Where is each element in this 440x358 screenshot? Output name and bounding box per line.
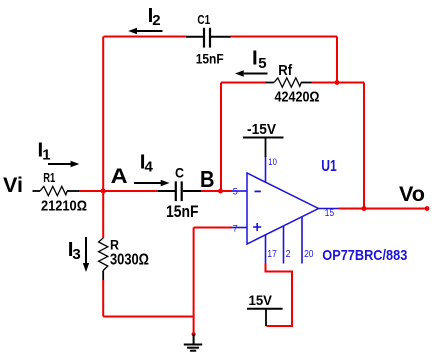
junction dot C1/Rf	[335, 80, 340, 85]
wire R bottom to bottom rail	[102, 280, 104, 317]
pin 15 stub (output)	[319, 208, 339, 210]
svg-text:17: 17	[267, 248, 277, 260]
svg-text:10: 10	[268, 157, 277, 168]
-15V stub	[265, 138, 267, 158]
pin 2 line	[283, 226, 285, 264]
svg-text:R: R	[110, 237, 119, 252]
op-amp plus sign	[253, 223, 261, 231]
arrow I4	[134, 180, 170, 186]
op-amp minus sign	[255, 190, 261, 192]
node B junction dot	[218, 189, 223, 194]
svg-text:R1: R1	[43, 171, 55, 185]
wire right drop from top to Rf row	[336, 37, 338, 83]
arrow I1	[48, 161, 79, 167]
svg-text:15nF: 15nF	[166, 202, 199, 221]
wire plus-input vertical drop	[193, 228, 195, 335]
resistor Rf	[266, 78, 312, 87]
wire Rf row left red	[221, 82, 266, 84]
svg-text:-15V: -15V	[247, 121, 276, 138]
wire top horizontal left (C1 branch)	[104, 36, 187, 38]
pin 17 line	[265, 235, 267, 264]
svg-text:C: C	[175, 165, 184, 181]
svg-text:15V: 15V	[249, 292, 273, 308]
capacitor C1	[186, 28, 231, 48]
pin 20 line	[301, 217, 303, 264]
svg-text:OP77BRC/883: OP77BRC/883	[322, 247, 407, 264]
wire top horizontal right	[231, 36, 338, 38]
svg-text:15: 15	[325, 208, 335, 219]
svg-text:Rf: Rf	[278, 62, 293, 79]
wire Rf row right red	[312, 82, 365, 84]
svg-text:21210Ω: 21210Ω	[41, 197, 87, 214]
svg-text:Vi: Vi	[3, 173, 23, 197]
capacitor C	[158, 181, 201, 201]
resistor R (vertical)	[99, 238, 108, 280]
wire R1 to node A	[79, 190, 158, 192]
svg-text:42420Ω: 42420Ω	[275, 90, 320, 106]
svg-text:C1: C1	[197, 12, 210, 27]
15V stub	[265, 309, 267, 326]
pin 7 stub (non-inverting input)	[231, 227, 247, 229]
wire bottom rail	[103, 316, 193, 318]
wire plus-input horizontal	[194, 227, 232, 229]
-15V bar	[243, 137, 284, 139]
svg-text:A: A	[111, 164, 128, 188]
ground symbol	[184, 334, 202, 351]
wire feedback left drop (Rf to node B)	[220, 83, 222, 192]
svg-text:Vo: Vo	[399, 182, 425, 206]
ground junction dot	[192, 332, 196, 336]
arrow I5	[235, 70, 268, 76]
svg-text:U1: U1	[321, 158, 337, 175]
wire pin17 to +15V supply	[266, 264, 293, 327]
op-amp U1 triangle	[247, 173, 319, 244]
wire left vertical (top to resistor R)	[102, 37, 104, 239]
svg-text:B: B	[200, 166, 215, 192]
wire output	[339, 208, 428, 210]
svg-text:7: 7	[233, 223, 238, 234]
pin 5 stub (inverting input)	[231, 190, 247, 192]
node A dot	[101, 189, 106, 194]
pin 10 line (V-)	[265, 156, 267, 182]
output terminal dot	[425, 206, 430, 211]
wire feedback right drop (Rf to output)	[363, 83, 365, 209]
svg-text:15nF: 15nF	[196, 51, 224, 67]
wire C to op-amp minus input	[201, 190, 232, 192]
arrow I2	[128, 28, 162, 34]
resistor R1	[33, 186, 80, 195]
15V bar	[247, 308, 283, 310]
svg-text:2: 2	[286, 248, 291, 260]
svg-text:3030Ω: 3030Ω	[110, 252, 149, 269]
arrow I3	[83, 237, 89, 272]
svg-text:5: 5	[233, 187, 238, 198]
junction dot output/feedback	[362, 206, 367, 211]
svg-text:20: 20	[304, 248, 314, 260]
